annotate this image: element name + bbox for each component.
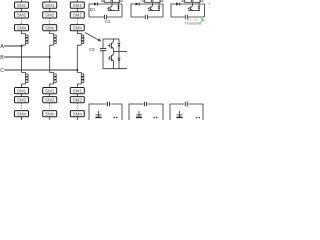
- inductor arm lower leg2: [54, 72, 57, 84]
- IGBT switch cell3: [188, 2, 200, 10]
- wire detail top: [103, 38, 119, 40]
- IGBT bcell1 (cropped): [96, 111, 102, 117]
- junction C: [76, 69, 78, 71]
- diode D1: [94, 2, 98, 5]
- svg-text:SM2: SM2: [45, 98, 55, 103]
- cropped module boxes above cell1: [101, 0, 123, 2]
- wire dotted SM2-SMn leg2: [49, 18, 51, 24]
- svg-text:SM2: SM2: [45, 13, 55, 18]
- svg-text:C1: C1: [105, 19, 111, 24]
- submodule SM2 lower leg1: [15, 97, 29, 103]
- submodule SM2 upper leg1: [15, 12, 29, 18]
- submodule SMn lower leg2: [43, 111, 57, 117]
- wire lower SM1-SM2 leg3: [76, 94, 78, 97]
- cropped module boxes above cell2: [141, 0, 163, 2]
- IGBT switch cell1: [107, 2, 119, 10]
- wire detail bottom output: [103, 68, 127, 70]
- svg-text:SM2: SM2: [17, 98, 27, 103]
- submodule SM1 upper leg2: [43, 2, 57, 8]
- callout arrow: [85, 33, 101, 42]
- wire bottom stub leg1: [21, 117, 23, 120]
- svg-text:SM1: SM1: [17, 3, 27, 8]
- svg-text:SMn: SMn: [17, 26, 27, 31]
- wire cell2 top right segment: [139, 3, 163, 5]
- wire dotted lower SM2-SMn leg1: [21, 103, 23, 110]
- diode antiparallel cell1: [117, 2, 119, 10]
- wire cell1 top right segment: [97, 3, 122, 5]
- wire cell2 left edge: [131, 4, 136, 17]
- inductor arm lower leg1: [26, 72, 29, 84]
- wire bottom stub leg2: [49, 117, 51, 120]
- svg-text:SMn: SMn: [17, 112, 27, 117]
- svg-text:SMn: SMn: [45, 112, 55, 117]
- wire bcell1 outline: [89, 104, 122, 120]
- svg-text:SM1: SM1: [17, 88, 27, 93]
- wire phase C: [4, 69, 77, 71]
- diode antiparallel cell3: [198, 2, 200, 10]
- wire lower SM1-SM2 leg1: [21, 94, 23, 97]
- wire arm mid leg1: [22, 45, 26, 72]
- transmit arrow (green dashed): [188, 19, 200, 21]
- wire arm mid leg3: [77, 45, 81, 72]
- inductor arm upper leg1: [26, 34, 29, 46]
- wire detail left rail: [102, 39, 104, 69]
- inductor arm upper leg3: [81, 34, 84, 46]
- cropped module boxes above cell3: [181, 0, 203, 2]
- submodule SM1 lower leg2: [43, 88, 57, 94]
- capacitor chain cell3: [185, 15, 187, 19]
- submodule SM2 lower leg3: [70, 97, 84, 103]
- wire bcell2 outline: [129, 104, 163, 120]
- junction A: [21, 45, 23, 47]
- IGBT bcell2 (cropped): [136, 111, 142, 117]
- wire cell2 bottom: [131, 16, 163, 18]
- svg-text:C0: C0: [89, 47, 95, 52]
- inductor arm upper leg2: [54, 34, 57, 46]
- wire SM1-SM2 leg1: [21, 8, 23, 11]
- submodule SMn upper leg3: [70, 25, 84, 31]
- submodule SMn lower leg1: [15, 111, 29, 117]
- svg-text:SMn: SMn: [73, 26, 83, 31]
- svg-text:SM1: SM1: [73, 3, 83, 8]
- svg-text:SM1: SM1: [45, 88, 55, 93]
- wire phase A: [4, 45, 21, 47]
- submodule SM1 lower leg1: [15, 88, 29, 94]
- submodule SMn upper leg1: [15, 25, 29, 31]
- wire top stub leg2: [49, 0, 51, 2]
- diode bcell1 (cropped dots): [114, 117, 118, 119]
- svg-text:SM2: SM2: [17, 13, 27, 18]
- capacitor bcell1: [108, 102, 110, 107]
- capacitor C1: [105, 15, 107, 19]
- svg-text:B: B: [0, 55, 4, 61]
- wire cell2 right edge: [162, 4, 164, 17]
- junction B: [49, 56, 51, 58]
- submodule SM2 upper leg2: [43, 12, 57, 18]
- svg-text:SM2: SM2: [73, 98, 83, 103]
- inductor arm lower leg3: [81, 72, 84, 84]
- submodule SM1 lower leg3: [70, 88, 84, 94]
- submodule SM2 lower leg2: [43, 97, 57, 103]
- capacitor bcell3: [185, 102, 187, 107]
- submodule SM1 upper leg3: [70, 2, 84, 8]
- IGBT bcell3 (cropped): [177, 111, 183, 117]
- wire dotted SM2-SMn leg1: [21, 18, 23, 24]
- svg-text:Transmit: Transmit: [184, 21, 202, 26]
- wire dotted SM2-SMn leg3: [76, 18, 78, 24]
- capacitor C0: [100, 49, 106, 51]
- wire into lower SM1 leg3: [77, 84, 81, 88]
- svg-text:D1: D1: [90, 7, 96, 12]
- wire SM1-SM2 leg3: [76, 8, 78, 11]
- wire cell3 right edge: [204, 4, 206, 17]
- IGBT T1: [108, 39, 114, 52]
- wire bottom stub leg3: [76, 117, 78, 120]
- wire dotted lower SM2-SMn leg2: [49, 103, 51, 110]
- wire SM1-SM2 leg2: [49, 8, 51, 11]
- wire below SMn leg1: [22, 31, 26, 34]
- wire into lower SM1 leg2: [50, 84, 54, 88]
- svg-text:SM1: SM1: [73, 88, 83, 93]
- svg-text:C: C: [0, 68, 4, 74]
- submodule SM1 upper leg1: [15, 2, 29, 8]
- wire below SMn leg2: [50, 31, 54, 34]
- capacitor chain cell2: [145, 15, 147, 19]
- submodule SM2 upper leg3: [70, 12, 84, 18]
- wire bcell3 outline: [170, 104, 203, 120]
- diode chain cell3: [176, 2, 180, 5]
- wire cell1 right edge: [121, 4, 123, 17]
- wire cell3 left edge: [171, 4, 176, 17]
- wire into lower SM1 leg1: [22, 84, 26, 88]
- wire cell3 bottom: [171, 16, 205, 18]
- svg-text:A: A: [0, 44, 4, 50]
- IGBT T2: [108, 52, 114, 69]
- wire cell1 bottom: [89, 16, 122, 18]
- wire dotted lower SM2-SMn leg3: [76, 103, 78, 110]
- diode bcell2 (cropped dots): [153, 117, 157, 119]
- svg-text:SMn: SMn: [45, 26, 55, 31]
- capacitor bcell2: [145, 102, 147, 107]
- diode bcell3 (cropped dots): [196, 117, 200, 119]
- submodule SMn upper leg2: [43, 25, 57, 31]
- diode antiparallel cell2: [158, 2, 160, 10]
- diode chain cell2: [136, 2, 140, 5]
- diode D-T2: [118, 52, 121, 69]
- wire phase B: [4, 56, 50, 58]
- svg-text:SM2: SM2: [73, 13, 83, 18]
- wire cell3 top right segment: [179, 3, 204, 5]
- wire lower SM1-SM2 leg2: [49, 94, 51, 97]
- svg-text:+: +: [208, 1, 211, 6]
- wire top stub leg3: [76, 0, 78, 2]
- wire below SMn leg3: [77, 31, 81, 34]
- wire cell1 left edge: [89, 4, 94, 17]
- svg-text:SMn: SMn: [73, 112, 83, 117]
- svg-text:SM1: SM1: [45, 3, 55, 8]
- diode D-T1: [118, 39, 121, 52]
- submodule SMn lower leg3: [70, 111, 84, 117]
- IGBT switch cell2: [148, 2, 160, 10]
- wire arm mid leg2: [50, 45, 54, 72]
- wire top stub leg1: [21, 0, 23, 2]
- wire detail mid output: [114, 51, 128, 53]
